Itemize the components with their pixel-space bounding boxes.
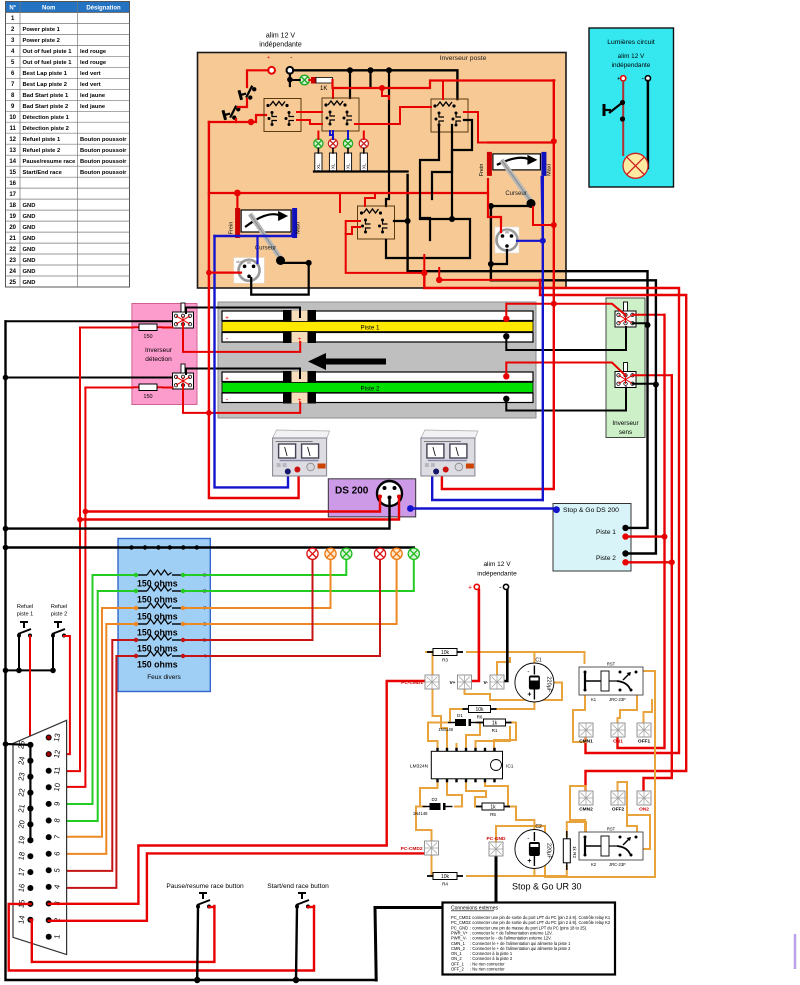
poste toggle node	[248, 119, 254, 125]
gap bar right top	[308, 371, 317, 383]
pin10 red rail	[49, 388, 86, 787]
svg-text:détection: détection	[145, 356, 172, 363]
svg-text:C1: C1	[535, 658, 542, 664]
red rail CMN1	[424, 273, 679, 753]
poste toggle 2	[223, 105, 243, 122]
poste black R3 drop 1	[420, 125, 439, 240]
resistor R2 1k vertical	[563, 831, 577, 870]
poste black bus node b	[368, 67, 374, 73]
red rail CMN2	[540, 280, 686, 791]
poste lamp feed blue 1	[332, 131, 334, 139]
svg-text:19: 19	[16, 835, 26, 845]
feux row left node	[134, 654, 138, 658]
pin table rows	[6, 2, 130, 288]
piste1 minus to sens relay black	[506, 327, 626, 350]
svg-text:led rouge: led rouge	[80, 60, 107, 66]
det1 sense black	[186, 308, 300, 318]
svg-text:piste 2: piste 2	[51, 612, 67, 618]
svg-text:Out of fuel piste 1: Out of fuel piste 1	[23, 49, 73, 55]
poste red bus node	[379, 85, 385, 91]
DB25 gnd pin node	[27, 742, 33, 748]
svg-text:23: 23	[9, 258, 16, 264]
det2 sense black	[186, 369, 300, 379]
poste toggle2 out	[209, 115, 266, 122]
purple artifact line	[794, 934, 797, 969]
amber branch to C1	[533, 652, 535, 663]
svg-text:20: 20	[9, 225, 16, 231]
poste red top long bus	[333, 80, 555, 88]
DS200 blue link to stopgo	[410, 507, 556, 509]
svg-text:10: 10	[9, 115, 16, 121]
amber C2 bottom	[533, 869, 535, 876]
svg-text:19: 19	[9, 214, 16, 220]
sens relay1 black out	[633, 323, 648, 325]
svg-text:Best Lap piste 1: Best Lap piste 1	[23, 71, 68, 77]
feux row right node	[181, 654, 185, 658]
track rail white	[222, 393, 533, 403]
poste DIN1 red feed	[209, 272, 241, 274]
capacitor C1 220uF	[515, 658, 554, 703]
svg-text:piste 1: piste 1	[17, 612, 33, 618]
sens relay piste2	[615, 363, 636, 388]
connexions externes underline	[451, 910, 494, 912]
svg-text:Lumières circuit: Lumières circuit	[607, 39, 655, 46]
poste XL connector	[315, 153, 322, 171]
svg-text:Pause/resume race: Pause/resume race	[23, 159, 77, 165]
feux row left node	[134, 606, 138, 610]
resistor 150 piste1	[133, 324, 163, 331]
svg-text:ON2: ON2	[639, 807, 649, 813]
feux resistor 150 ohms	[136, 651, 183, 656]
sens relay1 red out	[633, 314, 665, 316]
feux row wire to DB25	[49, 624, 136, 854]
junction right red upper	[551, 138, 557, 144]
resistor R4 10k	[427, 873, 463, 887]
feux lamp	[307, 548, 318, 559]
poste DIN droit	[495, 227, 519, 253]
pink relay2 black feed	[6, 377, 174, 379]
det1 return red	[183, 324, 300, 352]
pin3 red to PC-CMD1	[49, 681, 424, 904]
junction black rail1 / sens relay1	[645, 322, 651, 328]
svg-text:21: 21	[9, 236, 16, 242]
svg-text:Bouton poussoir: Bouton poussoir	[80, 137, 127, 143]
lumieres + terminal	[621, 76, 626, 81]
poste red relay4 to CMN1 rail	[346, 221, 425, 273]
feux bus junction	[156, 545, 160, 549]
poste lamp to XL	[317, 148, 319, 153]
poste DIN1 black out	[251, 263, 309, 295]
amber R5 to C2	[509, 807, 534, 830]
DS200 red wire upper	[85, 497, 380, 512]
poste black top bus	[293, 70, 457, 99]
poste XL pin stub	[363, 170, 365, 173]
svg-text:Refuel piste 1: Refuel piste 1	[23, 137, 61, 143]
amber PC-CMD1 bottom	[433, 689, 448, 751]
svg-text:R5: R5	[490, 812, 496, 817]
poste red R3 coil drop	[442, 81, 444, 100]
pin11 red rail	[49, 328, 80, 772]
svg-text:GND: GND	[23, 214, 36, 220]
PC-GND black wire	[495, 856, 498, 902]
poste black terminal	[287, 67, 294, 74]
junction piste1 wire / right rail	[551, 301, 557, 307]
connector PC-CMD2	[401, 841, 439, 855]
amber K2 right side	[627, 807, 650, 849]
poste relay R2	[322, 98, 359, 131]
svg-text:12: 12	[52, 749, 62, 759]
amber V- to K relays rail	[497, 658, 510, 675]
poste red drop to pot1	[236, 193, 238, 207]
track rail white	[222, 311, 533, 321]
svg-text:+: +	[267, 55, 270, 61]
left bus node DS200 gnd	[3, 526, 9, 532]
poste black relay4 path2	[386, 219, 470, 258]
poste DIN gauche	[234, 258, 264, 284]
poste XL pin stub	[347, 170, 349, 173]
power supply Alimentation piste 1	[273, 430, 330, 476]
svg-text:R1: R1	[492, 728, 498, 733]
svg-text:16: 16	[9, 181, 16, 187]
poste black stub terminal	[289, 74, 291, 86]
connector PC-CMD1	[401, 675, 439, 689]
gap bar right bottom	[308, 332, 317, 344]
amber K1 coil bottom to CMN1	[573, 695, 586, 742]
poste black node under terminal	[287, 77, 293, 83]
diode D1	[438, 713, 478, 732]
piste2 plus to sens relay red	[506, 363, 625, 377]
poste green lamp	[300, 75, 310, 85]
poste XL connector	[344, 153, 351, 171]
poste black long drop	[386, 70, 389, 206]
poste indicator lamp	[343, 139, 352, 148]
junction pin11 rail / DS200 red	[77, 517, 83, 523]
amber K2 contact to OFF2	[618, 782, 638, 832]
Inverseur sens enclosure	[606, 298, 645, 438]
amber IC pin bottom 1	[420, 779, 438, 807]
poste red R1-R2 upper	[297, 111, 322, 113]
DB25 connector body	[13, 720, 67, 954]
DS200 DIN socket	[377, 481, 402, 506]
svg-text:17: 17	[9, 192, 16, 198]
right red rail pot-PS2	[442, 81, 554, 490]
piste1 rail minus node	[503, 333, 509, 339]
feux row wire to DB25	[49, 640, 136, 871]
node red CMN2 src	[436, 277, 442, 283]
node red CMN1 src	[421, 270, 427, 276]
PS2 blue link	[432, 470, 543, 500]
connector OFF2	[611, 791, 625, 813]
poste lamp to XL	[363, 148, 365, 153]
stopgo piste1 red node	[622, 533, 628, 539]
feux row wire to DB25	[49, 608, 136, 837]
resistor R5 1k	[476, 803, 510, 817]
svg-text:Refuel piste 2: Refuel piste 2	[23, 148, 61, 154]
junction red ON1 / stopgo piste1	[662, 534, 668, 540]
amber R3 right run to K1	[467, 652, 585, 663]
svg-text:indépendante: indépendante	[259, 42, 302, 49]
svg-text:D1: D1	[457, 713, 463, 718]
amber IC pin bottom 2	[447, 779, 462, 807]
svg-text:20: 20	[16, 819, 26, 829]
left blue rail pot-PS1	[215, 236, 289, 487]
svg-text:ON1: ON1	[613, 739, 623, 745]
svg-text:11: 11	[52, 766, 62, 775]
poste 1K resistor	[311, 77, 333, 84]
det2 return red	[183, 385, 300, 413]
svg-text:16: 16	[16, 883, 26, 893]
poste red R3 right loop	[464, 112, 488, 143]
refuel2 red to pin12	[49, 636, 70, 754]
svg-text:+: +	[617, 77, 621, 83]
svg-text:Feux divers: Feux divers	[147, 674, 181, 681]
feux row right node	[181, 622, 185, 626]
svg-text:GND: GND	[23, 225, 36, 231]
poste red pot2 handle link	[533, 207, 554, 225]
left bus node refuel	[3, 668, 9, 674]
stopgo blue node	[553, 506, 560, 513]
detection segment tan bottom	[292, 332, 308, 343]
Lumieres circuit enclosure	[589, 28, 674, 187]
feux row wire to lamp	[183, 561, 331, 609]
refuel1 red to pin13	[30, 636, 49, 738]
amber IC pin top 2	[456, 744, 458, 751]
feux row right node	[181, 573, 185, 577]
feux row right node	[181, 638, 185, 642]
poste XL connector	[360, 153, 367, 171]
poste toggle 1	[239, 85, 259, 102]
amber D1 to IC	[466, 723, 480, 752]
sens relay2 red out	[633, 374, 672, 376]
track rail white	[222, 372, 533, 382]
svg-text:OFF2: OFF2	[612, 807, 625, 813]
pin table frame	[6, 2, 130, 288]
svg-text:Stop & Go UR 30: Stop & Go UR 30	[512, 882, 582, 892]
lumieres - terminal	[645, 76, 650, 81]
svg-text:Refuel: Refuel	[51, 604, 67, 610]
Inverseur poste enclosure	[198, 53, 567, 289]
detection segment tan top	[292, 311, 308, 322]
svg-text:V-: V-	[483, 680, 488, 686]
svg-text:+: +	[225, 376, 229, 383]
feux bus junction	[168, 545, 172, 549]
resistor R1 1k	[478, 719, 512, 733]
poste lamp feed blue 2	[347, 131, 349, 139]
feux row wire to lamp	[183, 561, 313, 641]
DB25 right pin column 13-1	[46, 733, 62, 940]
relay K2	[579, 827, 643, 868]
poste red pot2 top feed	[488, 141, 554, 143]
svg-text:alim 12 V: alim 12 V	[266, 33, 296, 40]
DB25 gnd pin node	[27, 758, 33, 764]
Inverseur detection enclosure	[132, 304, 197, 405]
amber K2 coil top to CMN2	[570, 786, 586, 832]
svg-text:Power piste 2: Power piste 2	[23, 38, 60, 44]
refuel junction2	[50, 668, 56, 674]
stopgo piste2 black node	[622, 550, 628, 556]
svg-text:Bouton poussoir: Bouton poussoir	[80, 170, 127, 176]
power supply Alimentation piste 2	[421, 430, 478, 476]
poste red left relay4 bus	[339, 193, 341, 212]
junction pin10 rail / DS200 red	[83, 509, 89, 515]
feux resistor 150 ohms	[136, 603, 183, 608]
pin14 red to pause button	[30, 906, 214, 962]
capacitor C2 220uF	[515, 824, 554, 869]
gap bar left top	[283, 371, 292, 383]
svg-text:18: 18	[9, 203, 16, 209]
lumieres red wire	[622, 81, 624, 155]
feux bus junction	[129, 545, 133, 549]
svg-text:1k R2: 1k R2	[572, 846, 577, 858]
poste black bus node a	[347, 67, 353, 73]
junction right red lower	[551, 222, 557, 228]
poste red terminal	[268, 67, 275, 74]
stopgo piste1 black node	[622, 525, 628, 531]
feux black bus	[6, 546, 414, 548]
piste2 minus to sens relay black	[506, 388, 626, 411]
poste pot2 wiper black	[491, 205, 531, 207]
feux resistor 150 ohms	[136, 570, 183, 575]
refuel black link	[6, 636, 20, 670]
svg-text:Best Lap piste 2: Best Lap piste 2	[23, 82, 67, 88]
feux lamp	[325, 548, 336, 559]
amber R3 left stub	[426, 651, 433, 653]
svg-text:Inverseur: Inverseur	[145, 347, 173, 354]
svg-text:JRC-23F: JRC-23F	[609, 862, 626, 867]
svg-text:led jaune: led jaune	[80, 104, 106, 110]
poste DIN2 black out	[491, 250, 507, 264]
feux lamp	[341, 548, 352, 559]
gap bar left bottom	[283, 392, 292, 404]
svg-text:25: 25	[9, 280, 16, 286]
feux row wire to lamp	[183, 561, 380, 657]
svg-text:+: +	[527, 692, 531, 699]
start button black	[296, 907, 297, 980]
det2 resistor feed red	[85, 387, 133, 389]
DB25 gnd pin node	[27, 806, 33, 812]
poste lamp to XL	[347, 148, 349, 153]
Feux divers enclosure	[118, 539, 210, 692]
poste black bus node c	[386, 67, 392, 73]
refuel junction1	[16, 668, 22, 674]
DS200 red wire lower	[80, 497, 399, 520]
poste DIN2 black node	[488, 261, 494, 267]
left bus node feux bus	[3, 545, 9, 551]
poste black R3 drop 2	[432, 125, 452, 199]
amber R6 to D1	[447, 709, 463, 723]
svg-text:DS 200: DS 200	[335, 486, 369, 497]
svg-text:Start/end race button: Start/end race button	[267, 883, 329, 890]
poste red relay4 coil	[365, 193, 375, 206]
svg-text:GND: GND	[23, 236, 36, 242]
svg-text:10k: 10k	[441, 650, 450, 656]
track bed	[218, 302, 536, 418]
resistor R6 10k	[463, 706, 497, 720]
bus node start	[293, 977, 299, 983]
svg-text:-: -	[290, 54, 292, 61]
svg-text:12: 12	[9, 137, 16, 143]
DS200 black wire	[6, 498, 390, 529]
svg-text:K2: K2	[591, 862, 597, 867]
lumieres switch	[604, 103, 623, 117]
amber IC internal	[448, 764, 490, 766]
feux row wire to DB25	[49, 575, 136, 804]
poste indicator lamp	[359, 139, 368, 148]
feux lamp	[374, 548, 385, 559]
svg-text:10k: 10k	[441, 874, 450, 880]
DB25 gnd pin node	[27, 821, 33, 827]
poste wiper junction	[306, 260, 312, 266]
stopgo piste1 red	[628, 535, 665, 537]
svg-text:-: -	[527, 670, 529, 676]
svg-text:1K: 1K	[320, 86, 327, 92]
poste relay R4	[358, 206, 395, 239]
feux row right node	[181, 606, 185, 610]
pin12 red node	[47, 752, 51, 756]
svg-text:N°: N°	[9, 5, 16, 11]
gap bar right bottom	[308, 392, 317, 404]
svg-text:-: -	[527, 836, 529, 842]
poste relay4 node	[405, 218, 411, 224]
svg-text:Bouton poussoir: Bouton poussoir	[80, 159, 127, 165]
svg-text:Out of fuel piste 1: Out of fuel piste 1	[23, 60, 73, 66]
alim+ red to V+	[472, 590, 479, 681]
amber IC pin top 3	[476, 727, 511, 751]
svg-text:alim: alim	[236, 260, 242, 264]
feux row wire to DB25	[49, 656, 136, 888]
start button red stub	[308, 906, 314, 908]
svg-text:Frein: Frein	[229, 222, 235, 235]
feux bus junction	[143, 545, 147, 549]
pause button red stub	[209, 906, 214, 908]
alim12V - terminal	[503, 584, 508, 589]
svg-text:Start/End race: Start/End race	[23, 170, 63, 176]
detection segment tan top	[292, 372, 308, 383]
feux resistor 150 ohms	[136, 586, 183, 591]
start/end race button	[295, 893, 310, 909]
amber K1 contact to ON1	[618, 695, 638, 723]
feux row wire to lamp	[183, 561, 397, 625]
feux resistor 150 ohms	[136, 619, 183, 624]
lumieres switch node bottom	[620, 116, 625, 121]
svg-text:GND: GND	[23, 269, 36, 275]
svg-text:PC-CMD1: PC-CMD1	[401, 680, 423, 686]
svg-text:220µF: 220µF	[545, 843, 551, 859]
amber R4 right run	[467, 866, 567, 876]
pin15 red to start button	[9, 904, 314, 971]
feux row left node	[134, 573, 138, 577]
svg-text:GND: GND	[23, 247, 36, 253]
feux row right node	[181, 589, 185, 593]
poste pot2 wiper node	[488, 203, 494, 209]
svg-text:Inverseur poste: Inverseur poste	[440, 55, 487, 62]
svg-text:Frein: Frein	[479, 164, 485, 177]
Stop & Go DS 200 enclosure	[553, 504, 631, 572]
svg-text:sens: sens	[619, 429, 632, 436]
svg-text:22: 22	[9, 247, 16, 253]
svg-text:D2: D2	[432, 797, 438, 802]
svg-text:17: 17	[16, 867, 26, 877]
feux resistor 150 ohms	[136, 635, 183, 640]
svg-text:JRC-23F: JRC-23F	[609, 697, 626, 702]
DS 200 enclosure	[328, 479, 415, 517]
junction det2/track red	[206, 410, 212, 416]
connector CMN1	[579, 723, 593, 745]
feux bus junction	[195, 545, 199, 549]
feux lamp	[408, 548, 419, 559]
left bus node detection2	[3, 375, 9, 381]
svg-text:Désignation: Désignation	[86, 5, 121, 11]
